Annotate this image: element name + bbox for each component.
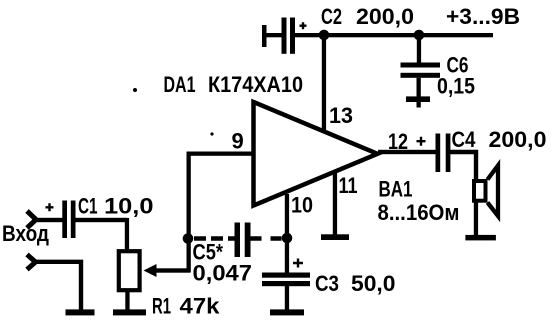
wire pin 13 bbox=[322, 35, 326, 131]
wire BA1 to ground bbox=[474, 201, 478, 237]
capacitor C2 bbox=[282, 18, 307, 54]
wire input top bbox=[33, 218, 63, 222]
ground (R1) bbox=[113, 309, 146, 315]
node junction rail/C6 bbox=[414, 30, 425, 41]
wire wiper to pin 9 bbox=[154, 268, 190, 272]
dashed wire C5 right bbox=[251, 236, 283, 240]
capacitor C5 bbox=[235, 223, 251, 258]
op-amp DA1 triangle bbox=[254, 102, 378, 206]
svg-text:C1: C1 bbox=[78, 194, 98, 219]
stray speck 1 bbox=[133, 88, 137, 92]
wire pin 9 vertical bbox=[187, 152, 191, 273]
wire pin 12 bbox=[378, 150, 436, 154]
svg-text:47k: 47k bbox=[180, 294, 221, 319]
wire pin 9 horizontal bbox=[187, 152, 256, 156]
wire C6 top bbox=[417, 35, 421, 63]
wire R1 top bbox=[125, 218, 129, 251]
svg-text:BA1: BA1 bbox=[379, 177, 413, 202]
capacitor C6 bbox=[401, 63, 441, 78]
svg-text:0,15: 0,15 bbox=[437, 74, 475, 99]
ground (input) bbox=[66, 309, 95, 315]
ground (C3) bbox=[270, 309, 304, 315]
svg-text:C3: C3 bbox=[315, 271, 339, 296]
potentiometer R1 bbox=[119, 251, 157, 290]
wire C3 bottom bbox=[285, 286, 289, 310]
wire C1 to R1 bbox=[76, 218, 128, 222]
dashed wire C5 left bbox=[194, 236, 235, 240]
svg-text:DA1: DA1 bbox=[164, 72, 196, 97]
ground (C2 negative terminal, left bar) bbox=[262, 25, 283, 47]
wire pin 11 bbox=[333, 171, 337, 237]
wire R1 bottom bbox=[125, 290, 129, 310]
svg-text:Вход: Вход bbox=[2, 221, 49, 246]
ground (BA1) bbox=[465, 235, 496, 241]
input terminal bottom arrow bbox=[27, 255, 36, 270]
ground (C6) bbox=[406, 96, 430, 107]
svg-text:0,047: 0,047 bbox=[193, 261, 253, 286]
wire input bottom bbox=[33, 262, 81, 312]
svg-text:R1: R1 bbox=[152, 294, 171, 319]
svg-text:К174ХА10: К174ХА10 bbox=[208, 72, 303, 97]
capacitor C3 bbox=[262, 273, 310, 287]
svg-text:50,0: 50,0 bbox=[351, 271, 396, 296]
wire C6 bottom bbox=[417, 78, 421, 99]
svg-text:10: 10 bbox=[291, 193, 313, 218]
svg-text:10,0: 10,0 bbox=[104, 194, 154, 219]
capacitor C4 bbox=[436, 134, 451, 173]
label + (C1 polarity) bbox=[46, 203, 54, 211]
svg-text:200,0: 200,0 bbox=[356, 4, 414, 29]
svg-text:9: 9 bbox=[232, 129, 244, 154]
stray speck 2 bbox=[210, 132, 213, 135]
capacitor C1 bbox=[62, 201, 75, 239]
label + (C3 polarity) bbox=[293, 259, 303, 268]
svg-text:+3...9В: +3...9В bbox=[446, 4, 520, 29]
svg-text:8...16Ом: 8...16Ом bbox=[378, 200, 460, 225]
svg-text:13: 13 bbox=[329, 103, 353, 128]
node junction pin9/C5 bbox=[183, 233, 194, 244]
svg-text:C2: C2 bbox=[321, 4, 342, 29]
label + (C4 polarity) bbox=[417, 137, 426, 146]
node junction rail/pin13 bbox=[319, 30, 330, 41]
svg-text:11: 11 bbox=[339, 173, 358, 198]
speaker BA1 bbox=[474, 166, 498, 217]
wire C4 to BA1 bbox=[450, 152, 476, 181]
wire (supply rail) bbox=[295, 33, 493, 37]
wire pin 10 bbox=[285, 194, 289, 273]
svg-text:12: 12 bbox=[388, 129, 408, 154]
input terminal top arrow bbox=[27, 211, 36, 228]
svg-text:C4: C4 bbox=[452, 127, 477, 152]
node junction pin10/C5/C3 bbox=[282, 233, 293, 244]
svg-text:200,0: 200,0 bbox=[489, 127, 547, 152]
ground (pin 11) bbox=[321, 234, 349, 240]
